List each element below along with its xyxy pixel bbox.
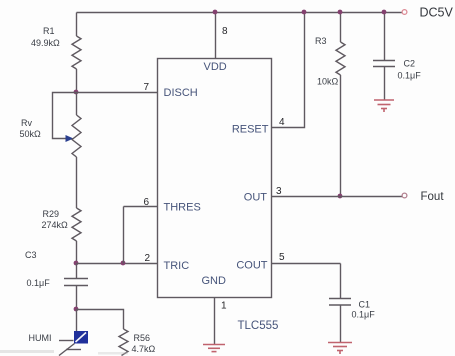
svg-text:3: 3: [276, 186, 282, 197]
wire COUT pin5: [272, 263, 341, 265]
svg-text:DISCH: DISCH: [164, 87, 198, 99]
resistor R56: [119, 329, 128, 356]
capacitor C2: [373, 61, 395, 67]
resistor R1: [72, 36, 81, 69]
wire Rv to R29: [76, 157, 78, 208]
ground C2: [374, 100, 394, 112]
wire C1 top lead: [340, 264, 342, 299]
wire RESET pin4: [272, 13, 305, 128]
wire R3 bottom lead: [340, 75, 342, 197]
svg-text:VDD: VDD: [204, 61, 227, 73]
op-amp U1 TLC555 body: [158, 59, 272, 298]
node junction VDD rail: [213, 10, 218, 15]
capacitor C1: [329, 299, 351, 306]
svg-text:49.9kΩ: 49.9kΩ: [31, 38, 60, 48]
svg-text:DC5V: DC5V: [420, 6, 454, 20]
svg-text:5: 5: [279, 252, 285, 263]
svg-text:HUMI: HUMI: [29, 333, 52, 343]
svg-text:TLC555: TLC555: [238, 320, 279, 332]
sensor HUMI wiper arrow: [59, 344, 81, 356]
wire R3 top lead: [340, 13, 342, 43]
svg-text:4: 4: [279, 117, 285, 128]
wire DISCH pin7: [77, 92, 158, 94]
terminal Fout circle: [402, 193, 407, 198]
wire OUT pin3: [272, 196, 403, 198]
svg-text:THRES: THRES: [164, 202, 201, 214]
node junction RESET rail: [302, 10, 307, 15]
svg-text:C2: C2: [404, 59, 416, 69]
wire Rv wiper branch: [53, 93, 77, 139]
svg-text:274kΩ: 274kΩ: [42, 220, 69, 230]
node junction C3/R56/HUMI: [74, 307, 79, 312]
svg-text:R56: R56: [134, 333, 151, 343]
svg-text:0.1μF: 0.1μF: [27, 278, 51, 288]
svg-text:4.7kΩ: 4.7kΩ: [132, 344, 156, 354]
svg-text:6: 6: [144, 197, 150, 208]
svg-text:TRIC: TRIC: [164, 260, 190, 272]
wire C2 bottom lead: [384, 67, 386, 100]
svg-text:C3: C3: [25, 250, 37, 260]
node junction R3/OUT: [338, 194, 343, 199]
node junction R1/Rv/DISCH: [74, 90, 79, 95]
wire HUMI label tie: [59, 340, 74, 342]
wire C1 bottom lead: [340, 306, 342, 343]
ground C1: [328, 343, 352, 355]
svg-text:OUT: OUT: [244, 192, 268, 204]
node junction R29/C3/TRIG: [74, 261, 79, 266]
wire C3 to junction: [76, 286, 78, 310]
sensor HUMI body: [74, 331, 88, 344]
node junction THRES/TRIG tie: [121, 261, 126, 266]
wire Rv top lead: [76, 93, 78, 116]
svg-text:R1: R1: [43, 26, 55, 36]
svg-text:10kΩ: 10kΩ: [317, 77, 339, 87]
svg-text:1: 1: [221, 301, 227, 312]
node junction R3 rail: [338, 10, 343, 15]
svg-text:R29: R29: [43, 209, 60, 219]
svg-text:0.1μF: 0.1μF: [398, 71, 422, 81]
node junction C2 rail: [382, 10, 387, 15]
wire TRIG pin2: [77, 263, 158, 265]
svg-text:8: 8: [222, 26, 228, 37]
wire THRES pin6: [124, 206, 158, 208]
svg-text:0.1μF: 0.1μF: [352, 310, 376, 320]
wire R1 bottom to junction: [76, 69, 78, 93]
potentiometer Rv body: [72, 115, 81, 157]
svg-text:2: 2: [145, 253, 151, 264]
svg-text:Fout: Fout: [421, 191, 445, 203]
svg-text:50kΩ: 50kΩ: [20, 129, 42, 139]
resistor R29: [72, 208, 81, 241]
svg-text:7: 7: [144, 82, 150, 93]
wire HUMI top lead: [76, 310, 78, 332]
wire R56 branch: [77, 310, 124, 330]
svg-text:GND: GND: [202, 275, 227, 287]
wire R29 to junction: [76, 241, 78, 264]
svg-text:R3: R3: [315, 36, 327, 46]
terminal DC5V circle: [402, 10, 407, 15]
wire R1 top lead: [76, 13, 78, 37]
svg-text:RESET: RESET: [232, 124, 269, 136]
decorative cut-off caption bottom left: [0, 350, 128, 355]
potentiometer Rv arrow: [66, 135, 74, 142]
resistor R3: [336, 42, 345, 75]
capacitor C3: [64, 279, 88, 286]
svg-text:Rv: Rv: [21, 118, 32, 128]
wire top power rail: [77, 12, 403, 14]
wire THRES branch vertical: [123, 207, 125, 264]
svg-text:COUT: COUT: [236, 260, 267, 272]
ground GND pin: [203, 345, 225, 352]
wire junction to C3: [76, 264, 78, 279]
svg-text:C1: C1: [359, 300, 371, 310]
wire GND pin1: [214, 298, 216, 345]
wire C2 top lead: [384, 13, 386, 61]
wire VDD pin8: [215, 13, 217, 59]
